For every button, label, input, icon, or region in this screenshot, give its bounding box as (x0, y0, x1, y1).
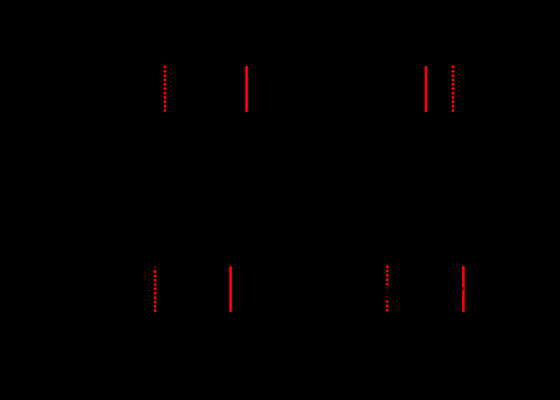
capacitor C4 left plate (red dashed) (386, 265, 389, 311)
capacitor C2 left plate (red solid) (425, 66, 428, 112)
wire (black notch crossing C4 solid plate) (462, 287, 463, 290)
capacitor C1 left plate (red dashed) (164, 66, 167, 112)
capacitor C2 right plate (red dashed) (452, 66, 455, 112)
capacitor C1 right plate (red solid) (245, 66, 248, 112)
capacitor C3 left plate (red dashed) (154, 266, 157, 312)
capacitor C4 right plate (red solid) (462, 266, 465, 312)
capacitor C3 right plate (red solid) (229, 266, 232, 312)
